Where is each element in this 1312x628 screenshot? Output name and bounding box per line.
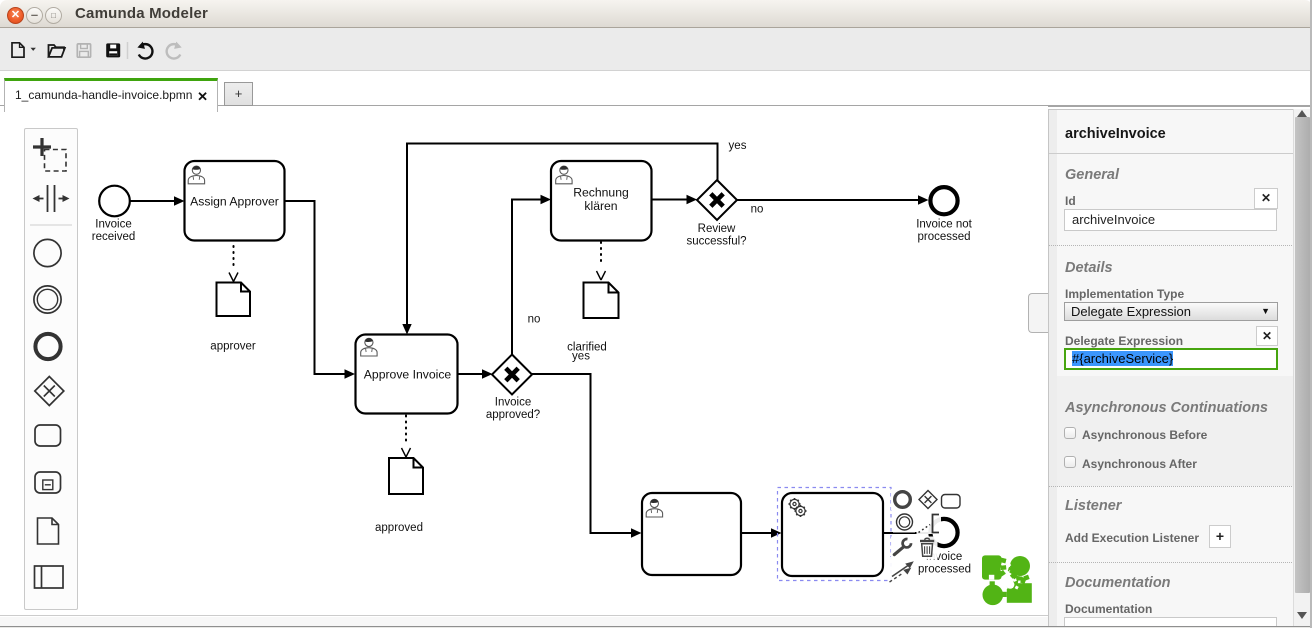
palette: lasso tool xyxy=(33,138,66,171)
data association: Approve Invoice -> approved xyxy=(402,416,411,458)
svg-text:Invoice not: Invoice not xyxy=(916,219,972,231)
context pad: connect arrows xyxy=(888,557,916,583)
selection outline around service task xyxy=(778,488,892,581)
data association: Assign Approver -> approver xyxy=(229,246,238,282)
end event: Invoice not processed xyxy=(930,187,957,214)
svg-text:yes: yes xyxy=(729,140,747,152)
sequence flow: start -> Assign Approver xyxy=(131,196,185,205)
context pad: append end event xyxy=(891,489,912,510)
svg-text:processed: processed xyxy=(918,564,971,576)
palette: data object xyxy=(38,518,59,544)
svg-text:approved?: approved? xyxy=(486,409,540,421)
open folder icon xyxy=(49,45,65,57)
svg-text:processed: processed xyxy=(917,231,970,243)
context pad: append intermediate event xyxy=(893,512,915,533)
sequence flow: Rechnung klaeren -> gateway Review successful? xyxy=(652,195,698,204)
svg-text:Rechnung: Rechnung xyxy=(573,186,629,200)
palette: start event xyxy=(34,239,61,266)
data object: approved xyxy=(389,458,423,494)
save-as icon xyxy=(106,43,120,57)
label: Invoice approved? xyxy=(486,397,540,422)
sequence flow: lower task 1 -> lower task 2 xyxy=(741,528,782,537)
end event: Invoice processed xyxy=(930,519,957,546)
toolbar xyxy=(0,28,1312,71)
palette: participant pool xyxy=(35,566,64,588)
svg-text:no: no xyxy=(751,204,764,216)
toolbar separator xyxy=(127,42,129,59)
data object: clarified xyxy=(584,283,619,319)
redo icon (disabled) xyxy=(167,44,181,58)
task: Rechnung klaeren xyxy=(551,161,652,241)
palette: task xyxy=(35,425,61,446)
label: Review successful? xyxy=(686,223,746,248)
svg-text:Review: Review xyxy=(698,223,736,235)
task: lower user task (unnamed) xyxy=(642,493,741,575)
label: Invoice not processed xyxy=(916,219,972,244)
svg-text:received: received xyxy=(92,231,135,243)
context pad: wrench (change type) xyxy=(891,537,912,558)
properties toggle tab xyxy=(1028,293,1049,333)
palette: space tool xyxy=(33,185,70,212)
start event: Invoice received xyxy=(99,186,130,217)
new file dropdown caret xyxy=(31,48,36,51)
new file icon xyxy=(12,43,24,57)
svg-text:Invoice: Invoice xyxy=(495,397,531,409)
task: Assign Approver xyxy=(185,161,285,241)
service task gears icon xyxy=(789,498,807,517)
context pad: text annotation xyxy=(917,512,942,534)
vertical scrollbar xyxy=(1293,109,1310,626)
sequence flow no: Review successful? -> Invoice not processed xyxy=(737,195,929,204)
bpmn.io watermark logo xyxy=(982,555,1032,605)
data object: approver xyxy=(217,283,251,317)
palette: end event xyxy=(35,334,60,359)
svg-text:no: no xyxy=(528,314,541,326)
svg-text:successful?: successful? xyxy=(686,236,746,248)
save icon (disabled) xyxy=(77,44,90,57)
gateway: Invoice approved? xyxy=(492,355,532,395)
palette: sub process xyxy=(35,472,61,493)
context pad: append gateway xyxy=(915,489,940,510)
sequence flow: lower task 2 -> Invoice processed xyxy=(884,532,929,534)
svg-text:approver: approver xyxy=(210,341,256,353)
palette: gateway xyxy=(35,377,64,406)
data association: Rechnung klaeren -> clarified xyxy=(597,242,606,280)
gateway: Review successful? xyxy=(697,180,737,220)
context pad: append task xyxy=(940,489,961,510)
svg-text:Assign Approver: Assign Approver xyxy=(190,195,279,209)
task: lower service task (selected) xyxy=(782,493,883,576)
properties panel xyxy=(1048,109,1293,626)
svg-text:approved: approved xyxy=(375,522,423,534)
diagram canvas xyxy=(0,106,1048,616)
undo icon xyxy=(139,44,153,58)
sequence flow: Assign Approver -> Approve Invoice xyxy=(285,201,356,379)
svg-text:yes: yes xyxy=(572,351,590,363)
palette xyxy=(24,128,78,610)
context pad: trash (delete) xyxy=(915,537,938,560)
window title bar xyxy=(0,0,1312,28)
sequence flow yes: Review successful? -> Approve Invoice (return) xyxy=(402,144,717,335)
task: Approve Invoice xyxy=(356,335,458,414)
sequence flow no: gateway Invoice approved? -> Rechnung klaeren xyxy=(512,195,551,355)
sequence flow: Approve Invoice -> gateway Invoice approved? xyxy=(458,369,493,378)
BPMN diagram canvas svg xyxy=(0,105,1048,616)
palette: intermediate event xyxy=(34,286,61,313)
label: Invoice received xyxy=(92,219,135,244)
svg-text:Approve Invoice: Approve Invoice xyxy=(364,368,452,382)
label: Invoice processed xyxy=(918,551,971,576)
svg-text:klären: klären xyxy=(584,199,617,213)
palette separator xyxy=(30,224,72,226)
svg-text:Invoice: Invoice xyxy=(95,219,131,231)
tab bar xyxy=(0,105,1312,107)
sequence flow yes: gateway -> lower task xyxy=(532,374,642,538)
